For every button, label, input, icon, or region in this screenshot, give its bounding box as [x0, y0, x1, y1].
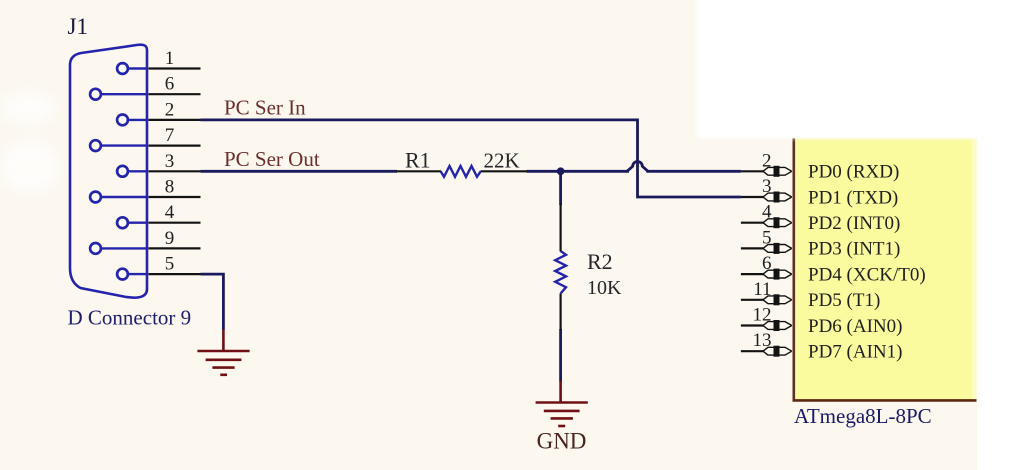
svg-text:22K: 22K — [484, 149, 520, 173]
svg-text:3: 3 — [165, 151, 175, 172]
svg-text:PD7 (AIN1): PD7 (AIN1) — [808, 342, 902, 363]
svg-text:5: 5 — [165, 254, 175, 275]
svg-text:PD3 (INT1): PD3 (INT1) — [808, 239, 900, 260]
svg-text:6: 6 — [762, 253, 772, 274]
svg-text:4: 4 — [165, 202, 175, 223]
svg-text:1: 1 — [165, 48, 175, 69]
svg-text:10K: 10K — [587, 277, 622, 299]
svg-text:R2: R2 — [587, 249, 613, 274]
svg-text:3: 3 — [762, 176, 772, 197]
svg-text:9: 9 — [165, 228, 175, 249]
svg-text:4: 4 — [762, 202, 772, 223]
svg-text:2: 2 — [762, 150, 772, 171]
svg-text:8: 8 — [165, 177, 175, 198]
svg-text:ATmega8L-8PC: ATmega8L-8PC — [794, 404, 932, 428]
svg-text:7: 7 — [165, 125, 175, 146]
svg-text:PC Ser Out: PC Ser Out — [224, 147, 320, 171]
svg-text:PC Ser In: PC Ser In — [224, 96, 306, 120]
svg-text:PD1 (TXD): PD1 (TXD) — [808, 187, 898, 208]
svg-text:PD4 (XCK/T0): PD4 (XCK/T0) — [808, 264, 926, 285]
svg-text:11: 11 — [753, 279, 771, 300]
svg-text:13: 13 — [753, 330, 772, 351]
svg-text:2: 2 — [165, 99, 175, 120]
svg-text:GND: GND — [537, 428, 587, 453]
svg-text:D Connector 9: D Connector 9 — [68, 305, 192, 329]
svg-text:12: 12 — [753, 305, 772, 326]
svg-text:6: 6 — [165, 74, 175, 95]
svg-text:PD5 (T1): PD5 (T1) — [808, 290, 880, 311]
svg-text:J1: J1 — [68, 14, 88, 39]
svg-text:PD0 (RXD): PD0 (RXD) — [808, 162, 899, 183]
svg-text:PD6 (AIN0): PD6 (AIN0) — [808, 316, 902, 337]
svg-text:R1: R1 — [405, 148, 431, 173]
svg-text:5: 5 — [762, 227, 772, 248]
svg-text:PD2 (INT0): PD2 (INT0) — [808, 213, 900, 234]
